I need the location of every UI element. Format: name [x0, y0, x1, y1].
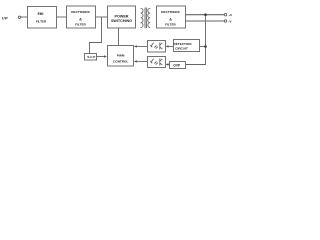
transformer T1 primary winding [141, 8, 143, 27]
block EMI FILTER [28, 7, 57, 29]
wire EMI filter to rectifiers [56, 16, 66, 18]
wire PWM to optocoupler U1 with arrow [137, 45, 148, 47]
block DETECTION CIRCUIT [174, 40, 200, 52]
svg-text:CONTROL: CONTROL [113, 60, 128, 64]
node -V output terminal [224, 20, 226, 22]
node +V output terminal [224, 14, 226, 16]
optocoupler U2 LED [150, 59, 153, 64]
svg-text:I/P: I/P [2, 15, 9, 20]
svg-text:DETECTION: DETECTION [174, 42, 193, 46]
optocoupler U2 phototransistor [160, 59, 163, 66]
optocoupler U2 light arrows [155, 62, 158, 65]
wire rectifiers to power switching [95, 16, 107, 18]
wire OVP to optocoupler U2 with arrow [168, 64, 170, 66]
svg-text:EMI: EMI [38, 12, 44, 16]
block PWM CONTROL [108, 46, 134, 67]
svg-text:SWITCHING: SWITCHING [111, 19, 132, 23]
svg-text:POWER: POWER [115, 14, 129, 18]
transformer T1 core [144, 8, 146, 29]
svg-text:&: & [169, 18, 172, 22]
svg-text:PWM: PWM [117, 53, 125, 57]
transformer T1 secondary winding [148, 8, 150, 27]
node junction on sense line [204, 45, 207, 48]
node I/P input terminal [18, 16, 20, 18]
wire output -V line [186, 20, 225, 22]
wire PWM to optocoupler U2 with arrow [137, 60, 148, 62]
svg-text:FILTER: FILTER [165, 22, 176, 26]
wire output +V line [186, 14, 225, 16]
wire feedback sense from +V line down to OVP [186, 15, 206, 65]
svg-text:FILTER: FILTER [75, 22, 86, 26]
svg-text:FILTER: FILTER [36, 20, 47, 24]
wire power switching to PWM control [118, 28, 120, 45]
svg-text:&: & [79, 18, 82, 22]
optocoupler U1 LED [150, 43, 153, 48]
block RECTIFIERS & FILTER (input side) [67, 6, 96, 28]
optocoupler U2 box [148, 57, 166, 68]
node junction on +V line [204, 13, 207, 16]
svg-text:OVP: OVP [173, 64, 181, 68]
block S.U.P start-up supply [85, 54, 97, 61]
wire tap to start-up supply [90, 17, 102, 53]
optocoupler U1 phototransistor [160, 43, 163, 50]
optocoupler U1 light arrows [155, 46, 158, 49]
svg-text:CIRCUIT: CIRCUIT [175, 47, 188, 51]
block OVP [170, 62, 186, 69]
wire S.U.P to PWM control with arrow [97, 56, 105, 58]
wire detection circuit to sense line [200, 46, 206, 48]
block RECTIFIERS & FILTER (output side) [157, 6, 186, 28]
optocoupler U1 box [148, 41, 166, 53]
svg-text:RECTIFIERS: RECTIFIERS [71, 10, 89, 14]
wire detection circuit to optocoupler U1 with arrow [168, 45, 173, 47]
svg-text:S.U.P: S.U.P [87, 55, 95, 59]
svg-text:RECTIFIERS: RECTIFIERS [161, 10, 179, 14]
block POWER SWITCHING [108, 6, 136, 28]
wire input to EMI filter [21, 16, 27, 18]
